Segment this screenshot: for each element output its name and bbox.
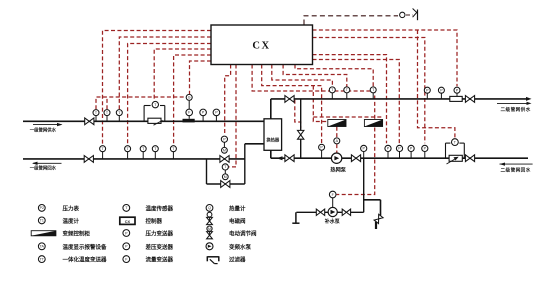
svg-text:T1: T1 — [40, 219, 44, 223]
svg-text:热量计: 热量计 — [229, 205, 246, 213]
svg-text:流量变送器: 流量变送器 — [146, 256, 174, 264]
svg-text:G: G — [188, 96, 191, 100]
svg-text:电动调节阀: 电动调节阀 — [229, 230, 257, 238]
svg-text:M: M — [223, 149, 226, 153]
svg-text:差压变送器: 差压变送器 — [146, 243, 174, 251]
svg-text:Q: Q — [208, 206, 211, 210]
svg-text:二级管网回水: 二级管网回水 — [501, 166, 531, 173]
svg-text:过滤器: 过滤器 — [229, 256, 246, 264]
svg-text:温度计: 温度计 — [63, 217, 80, 225]
svg-text:温度传感器: 温度传感器 — [146, 205, 174, 213]
svg-text:M: M — [208, 227, 211, 231]
svg-text:温度显示报警设备: 温度显示报警设备 — [63, 243, 108, 251]
svg-text:一体化温度变送器: 一体化温度变送器 — [63, 256, 108, 264]
svg-text:控制器: 控制器 — [146, 217, 163, 225]
svg-text:换热器: 换热器 — [266, 137, 280, 144]
svg-text:P2: P2 — [40, 206, 44, 210]
svg-text:补水泵: 补水泵 — [324, 218, 341, 225]
svg-text:热网泵: 热网泵 — [330, 165, 346, 173]
svg-text:CX: CX — [252, 41, 270, 52]
svg-text:一级管网回水: 一级管网回水 — [30, 164, 57, 171]
svg-text:压力表: 压力表 — [63, 205, 80, 213]
svg-text:变频水泵: 变频水泵 — [229, 243, 252, 251]
svg-text:M: M — [224, 175, 227, 179]
svg-text:CX: CX — [125, 220, 131, 224]
svg-text:TA: TA — [40, 245, 45, 249]
svg-text:变频控制柜: 变频控制柜 — [63, 230, 91, 238]
svg-text:电磁阀: 电磁阀 — [229, 217, 246, 225]
svg-text:压力变送器: 压力变送器 — [146, 230, 174, 238]
svg-text:一级管网供水: 一级管网供水 — [30, 126, 57, 133]
svg-text:二级管网供水: 二级管网供水 — [501, 106, 531, 113]
